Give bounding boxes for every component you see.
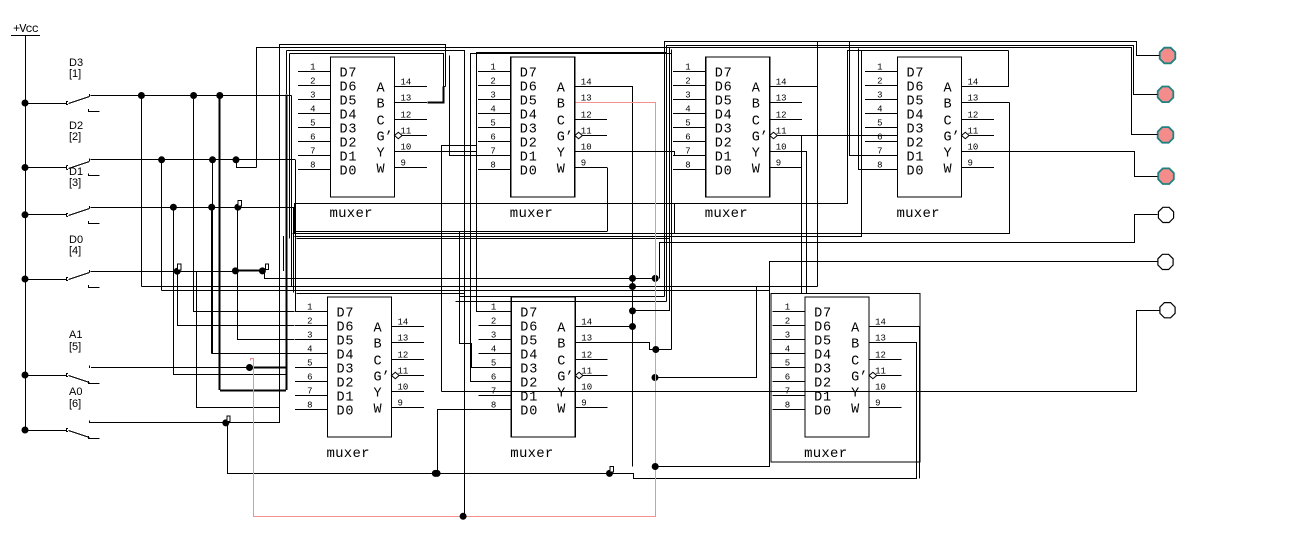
wire D3 drop b [194,96,295,312]
switch D0 [25,270,100,287]
mux U4 [865,57,994,222]
flag [238,201,241,207]
wire A0 out [89,422,225,424]
wire U2 pin10 jog [675,152,706,156]
switch D2 [25,159,100,176]
mux U6 [479,297,608,462]
switch D1 [25,206,100,224]
svg-text:muxer: muxer [804,446,847,462]
svg-text:D3: D3 [337,363,354,378]
junction [158,156,165,163]
svg-text:D1: D1 [520,391,537,406]
svg-text:D0: D0 [715,165,732,180]
svg-text:A: A [944,82,953,97]
wire y296 line [460,296,665,298]
wire bus L4 [290,54,444,87]
junction [629,323,636,330]
svg-text:C: C [944,115,952,130]
svg-text:4: 4 [310,105,315,115]
svg-text:A: A [557,322,566,337]
mux U3 [673,57,802,222]
svg-text:C: C [752,115,760,130]
svg-text:C: C [374,355,382,370]
wire D1 out [91,207,294,209]
svg-text:B: B [944,98,952,113]
svg-text:8: 8 [685,161,690,171]
svg-text:W: W [557,163,566,178]
wire D3 drop thick [218,96,220,391]
probe P6 (off) [1158,254,1173,269]
svg-text:D3: D3 [520,123,537,138]
wire label box v [674,203,676,234]
wire bus R3 [669,47,671,311]
wire U3 G prime link [777,135,898,137]
svg-text:[2]: [2] [69,131,81,143]
svg-text:muxer: muxer [510,206,553,222]
svg-text:3: 3 [490,91,495,101]
wire U7 box [771,293,920,462]
svg-text:D0: D0 [907,165,924,180]
svg-text:D1: D1 [907,151,924,166]
svg-text:12: 12 [581,111,592,121]
junction [138,92,145,99]
junction [222,419,229,426]
svg-text:D1: D1 [520,151,537,166]
wire U2 pin7 feed [450,56,479,156]
svg-text:6: 6 [491,373,496,383]
svg-text:7: 7 [877,147,882,157]
svg-text:D7: D7 [520,307,537,322]
svg-text:D4: D4 [520,109,537,124]
wire label box v2 [294,203,296,234]
wire D0 out [91,271,236,273]
wire y290 line [162,290,770,292]
svg-text:D4: D4 [337,349,354,364]
svg-text:1: 1 [785,303,790,313]
wire mid y242b [659,242,661,278]
svg-text:D4: D4 [715,109,732,124]
junction [233,156,240,163]
svg-text:7: 7 [307,387,312,397]
wire D0 thick seg [235,269,262,271]
wire D1 drop b [211,207,213,353]
mux U5 [295,297,424,462]
svg-text:W: W [377,163,386,178]
svg-text:D7: D7 [814,307,831,322]
switch D3 label [69,57,83,80]
svg-text:D3: D3 [814,363,831,378]
svg-text:7: 7 [490,147,495,157]
svg-text:D0: D0 [520,165,537,180]
wire U7 pin5 feed [771,367,773,369]
svg-text:6: 6 [685,133,690,143]
svg-text:[1]: [1] [69,68,81,80]
svg-text:12: 12 [875,351,886,361]
svg-text:A: A [752,82,761,97]
wire U2 pin14 drop [576,87,633,467]
svg-text:Y: Y [377,147,385,162]
probe P2 (lit) [1158,87,1174,103]
probe P7 (off) [1160,303,1175,318]
svg-text:A0: A0 [69,386,82,398]
rail junction D3 [22,100,29,107]
junction [434,470,441,477]
wire D1 drop c [238,208,295,340]
svg-text:muxer: muxer [330,206,373,222]
wire U6 pin1 feed [476,311,480,313]
wire U6 pin5 path [460,232,481,368]
wire riser 295 [295,231,297,312]
wire D0 elbow [263,271,656,279]
svg-text:D2: D2 [340,137,357,152]
svg-text:D4: D4 [520,349,537,364]
wire y52 link [476,52,667,54]
junction [629,275,636,282]
svg-text:3: 3 [785,331,790,341]
svg-text:C: C [377,115,385,130]
wire U5 pin7 thick [220,389,286,391]
svg-text:D5: D5 [340,95,357,110]
svg-text:1: 1 [877,63,882,73]
svg-text:5: 5 [490,119,495,129]
svg-text:Y: Y [374,387,382,402]
svg-text:[5]: [5] [69,341,81,353]
svg-text:2: 2 [877,77,882,87]
junction [652,275,659,282]
wire U5 pin4 feed [212,353,295,355]
svg-text:D4: D4 [814,349,831,364]
junction [190,92,197,99]
svg-text:D4: D4 [907,109,924,124]
svg-text:D7: D7 [520,67,537,82]
switch D3 [25,94,100,111]
svg-text:8: 8 [310,161,315,171]
wire riser 289 [289,53,291,238]
svg-text:D2: D2 [520,377,537,392]
wire U7 pin4 feed [769,353,772,355]
svg-text:B: B [557,338,565,353]
svg-text:6: 6 [490,133,495,143]
wire y53 link [470,53,671,55]
wire riser 470 [470,54,472,382]
svg-text:A: A [377,82,386,97]
svg-text:D6: D6 [337,321,354,336]
flag [178,264,181,270]
svg-text:G’: G’ [377,131,393,146]
svg-text:G’: G’ [851,371,867,386]
svg-text:1: 1 [307,303,312,313]
svg-text:12: 12 [581,351,592,361]
svg-text:D6: D6 [715,81,732,96]
svg-text:W: W [752,163,761,178]
wire D2 drop b [212,160,214,354]
svg-text:+Vcc: +Vcc [13,22,39,36]
svg-text:[6]: [6] [69,398,81,410]
svg-text:A1: A1 [69,329,82,341]
junction [629,307,636,314]
switch A1 [25,366,100,384]
wire bottom sel jog [610,343,917,479]
svg-text:B: B [377,98,385,113]
svg-text:9: 9 [401,159,406,169]
svg-text:G’: G’ [752,131,768,146]
wire mid y233 [293,103,1010,234]
svg-text:muxer: muxer [705,206,748,222]
wire y407 link [197,407,280,409]
wire riser 817 [817,41,819,286]
svg-text:D7: D7 [337,307,354,322]
wire U7 pin14 [870,327,920,479]
junction [232,267,239,274]
wire D1 drop a [174,208,287,375]
svg-text:3: 3 [307,331,312,341]
flag [265,264,268,270]
svg-text:B: B [557,98,565,113]
Vcc rail wire [25,36,27,434]
mux U2 [478,57,607,222]
svg-text:5: 5 [685,119,690,129]
svg-text:2: 2 [307,317,312,327]
svg-text:D7: D7 [340,67,357,82]
svg-text:A: A [557,82,566,97]
svg-text:D4: D4 [340,109,357,124]
svg-text:2: 2 [685,77,690,87]
svg-text:D5: D5 [907,95,924,110]
probe P3 (lit) [1158,127,1174,143]
svg-text:9: 9 [581,399,586,409]
svg-text:1: 1 [685,63,690,73]
svg-text:4: 4 [307,345,312,355]
svg-text:A: A [851,322,860,337]
wire D2 jog [237,160,257,168]
wire y145 link [441,145,476,147]
svg-text:6: 6 [307,373,312,383]
svg-text:D1: D1 [715,151,732,166]
svg-text:6: 6 [785,373,790,383]
svg-text:muxer: muxer [897,206,940,222]
svg-text:12: 12 [398,351,409,361]
junction [234,204,241,211]
svg-text:2: 2 [491,317,496,327]
Vcc source [11,22,40,36]
svg-text:D6: D6 [520,321,537,336]
svg-text:D7: D7 [907,67,924,82]
wire D3 drop d [291,96,293,204]
svg-text:13: 13 [398,334,409,344]
wire U4 pin14 riser [962,51,1009,87]
svg-text:8: 8 [490,161,495,171]
svg-text:13: 13 [776,94,787,104]
wire A1 riser [285,95,287,391]
wire D3 out [91,95,292,97]
svg-text:G’: G’ [944,131,960,146]
svg-text:1: 1 [491,303,496,313]
wire A1 thick [250,366,287,368]
svg-text:12: 12 [968,111,979,121]
wire D2 drop c [295,160,297,231]
wire U1 pin14 tie [443,86,445,88]
wire U6 pin14 link [608,326,633,328]
wire U2 pin9 drop [607,168,609,232]
switch A0 [25,421,100,439]
wire bus R1 [665,42,1160,297]
svg-text:4: 4 [785,345,790,355]
svg-text:D0: D0 [814,405,831,420]
svg-text:6: 6 [310,133,315,143]
wire A0 riser2 [279,408,281,423]
svg-text:D0: D0 [340,165,357,180]
svg-text:Y: Y [557,147,565,162]
svg-text:C: C [557,355,565,370]
wire U1 pin13 elbow [428,87,444,103]
junction [259,267,266,274]
svg-text:W: W [374,403,383,418]
svg-text:muxer: muxer [327,446,370,462]
wire mid y238 [297,238,669,240]
svg-text:4: 4 [877,105,882,115]
svg-text:1: 1 [310,63,315,73]
svg-text:3: 3 [877,91,882,101]
svg-text:2: 2 [490,77,495,87]
wire mid y236 [295,51,862,237]
svg-text:12: 12 [776,111,787,121]
wire red tap [656,287,757,378]
svg-text:C: C [851,355,859,370]
wire bottom sel line [435,473,609,475]
switch D0 label [69,234,83,257]
svg-text:10: 10 [398,383,409,393]
flag [610,466,613,472]
wire bus R2 [667,46,1158,302]
svg-text:D1: D1 [340,151,357,166]
svg-text:D6: D6 [907,81,924,96]
junction [170,204,177,211]
svg-text:[4]: [4] [69,245,81,257]
svg-text:D2: D2 [337,377,354,392]
svg-text:D2: D2 [814,377,831,392]
wire U3 pin10 drop [771,152,807,294]
svg-text:D3: D3 [520,363,537,378]
svg-text:5: 5 [310,119,315,129]
junction [652,463,659,470]
svg-text:D0: D0 [337,405,354,420]
svg-text:muxer: muxer [510,446,553,462]
wire mid y242 [660,215,1158,243]
wire U4 pin8 feed [859,49,867,170]
svg-text:Y: Y [557,387,565,402]
wire D2 drop a [161,160,163,291]
svg-text:8: 8 [491,401,496,411]
wire D2 out [91,159,296,161]
switch A0 label [69,386,82,410]
switch D2 label [69,120,83,143]
wire y286 line [141,286,817,288]
wire U4 pin13 link [962,102,1010,104]
wire U1 pin10 wire [395,151,477,153]
svg-text:D2: D2 [715,137,732,152]
switch A1 label [69,329,82,353]
svg-text:D2: D2 [520,137,537,152]
svg-text:W: W [944,163,953,178]
wire U3 pin14 riser [770,86,818,88]
wire U4 pin7 feed [850,42,867,156]
svg-text:Y: Y [752,147,760,162]
svg-text:D6: D6 [340,81,357,96]
svg-text:G’: G’ [374,371,390,386]
svg-text:C: C [557,115,565,130]
rail junction A1 [22,372,29,379]
svg-text:5: 5 [785,359,790,369]
svg-text:B: B [752,98,760,113]
junction [629,283,636,290]
switch D1 label [69,166,83,189]
rail junction D0 [22,276,29,283]
svg-text:8: 8 [877,161,882,171]
probe P5 (off) [1158,207,1173,222]
wire y301 line [456,301,667,303]
svg-text:D5: D5 [520,95,537,110]
svg-text:W: W [851,403,860,418]
svg-text:D3: D3 [715,123,732,138]
junction [652,346,659,353]
svg-text:9: 9 [875,399,880,409]
flag [227,416,230,422]
svg-text:Y: Y [944,147,952,162]
svg-text:4: 4 [685,105,690,115]
svg-text:D6: D6 [814,321,831,336]
svg-text:9: 9 [581,159,586,169]
mux U1 [298,57,427,222]
wire D1 drop d [293,207,295,292]
mux U7 [773,297,902,462]
wire bus y50r [848,51,1009,204]
svg-text:D5: D5 [715,95,732,110]
svg-text:13: 13 [401,94,412,104]
junction [174,268,181,275]
junction [208,204,215,211]
wire bus L3 [287,51,465,517]
svg-text:B: B [851,338,859,353]
svg-text:G’: G’ [557,371,573,386]
svg-text:3: 3 [491,331,496,341]
svg-text:2: 2 [785,317,790,327]
wire U6 pin8 riser [438,410,481,474]
svg-text:B: B [374,338,382,353]
wire riser 291 [291,203,293,287]
wire bus L1 [280,45,446,87]
junction [606,470,613,477]
wire bus L1 riser [279,44,281,408]
svg-text:D2: D2 [907,137,924,152]
svg-text:D3: D3 [340,123,357,138]
wire y293 line [297,293,465,295]
svg-text:8: 8 [307,401,312,411]
svg-text:D5: D5 [520,335,537,350]
svg-text:4: 4 [490,105,495,115]
wire bus L2 [257,48,1158,168]
svg-text:14: 14 [581,318,592,328]
junction [216,92,223,99]
svg-text:[3]: [3] [69,177,81,189]
svg-text:5: 5 [491,359,496,369]
svg-text:D5: D5 [814,335,831,350]
wire mid y203 [295,203,848,205]
svg-text:A: A [374,322,383,337]
wire D3 drop a [141,96,143,287]
svg-text:2: 2 [310,77,315,87]
junction [432,470,439,477]
wire y310 link [633,310,670,312]
